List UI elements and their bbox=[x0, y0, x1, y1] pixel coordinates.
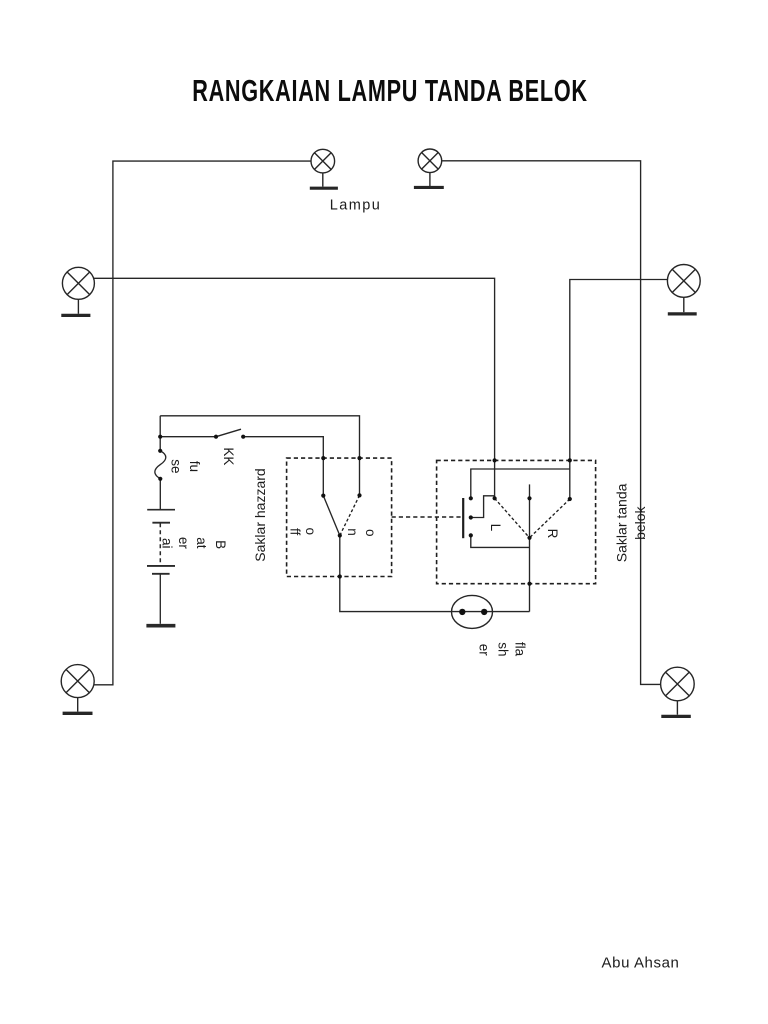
svg-text:Saklar hazzard: Saklar hazzard bbox=[252, 468, 268, 561]
svg-text:at: at bbox=[194, 537, 209, 549]
svg-text:ff: ff bbox=[288, 528, 303, 536]
svg-text:er: er bbox=[476, 644, 491, 657]
svg-text:Lampu: Lampu bbox=[330, 197, 382, 213]
svg-text:fu: fu bbox=[187, 461, 202, 472]
svg-text:KK: KK bbox=[221, 447, 236, 465]
svg-text:o: o bbox=[303, 527, 318, 535]
svg-text:fla: fla bbox=[513, 642, 528, 657]
svg-text:Abu Ahsan: Abu Ahsan bbox=[602, 955, 680, 972]
svg-text:R: R bbox=[545, 529, 560, 539]
svg-text:belok: belok bbox=[632, 505, 648, 539]
svg-text:o: o bbox=[363, 529, 378, 537]
svg-text:RANGKAIAN LAMPU TANDA BELOK: RANGKAIAN LAMPU TANDA BELOK bbox=[192, 73, 588, 108]
svg-text:B: B bbox=[213, 540, 228, 549]
svg-text:n: n bbox=[345, 528, 360, 536]
svg-text:sh: sh bbox=[496, 642, 511, 656]
svg-text:er: er bbox=[176, 537, 191, 550]
svg-text:L: L bbox=[488, 524, 503, 532]
svg-text:Saklar tanda: Saklar tanda bbox=[614, 483, 630, 562]
svg-text:se: se bbox=[168, 459, 183, 473]
svg-text:ai: ai bbox=[159, 538, 174, 549]
